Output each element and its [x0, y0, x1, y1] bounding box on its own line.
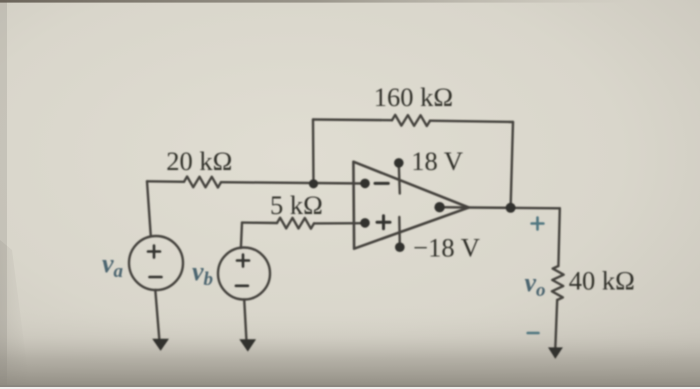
wire noninverting input right	[314, 222, 365, 225]
resistor R160 zigzag	[392, 115, 430, 126]
arrow vb ground	[239, 339, 256, 351]
svg-text:5 kΩ: 5 kΩ	[270, 190, 323, 220]
wire feedback left vertical	[312, 120, 315, 184]
op-amp -18V pin dot	[395, 242, 405, 252]
plus sign load	[532, 218, 544, 230]
minus sign load	[528, 332, 539, 335]
bottom dark rule	[0, 385, 700, 387]
op-amp inverting pin dot	[360, 179, 370, 189]
svg-text:40 kΩ: 40 kΩ	[569, 265, 635, 295]
op-amp +18V pin dot	[394, 158, 404, 168]
op-amp plus mark	[377, 216, 390, 229]
source va circle	[129, 236, 183, 290]
wire -18V supply stub	[398, 217, 401, 246]
wire vb to arrow	[244, 300, 246, 340]
resistor R40 zigzag	[552, 266, 564, 300]
minus sign va	[150, 276, 162, 279]
wire output to load corner	[469, 206, 560, 209]
node output junction dot	[506, 203, 516, 213]
resistor R5 zigzag	[277, 218, 314, 229]
wire inverting input right	[221, 182, 365, 183]
svg-text:18 V: 18 V	[411, 146, 463, 176]
resistor R20 zigzag	[184, 177, 221, 188]
svg-text:160 kΩ: 160 kΩ	[374, 82, 453, 112]
wire va to arrow	[155, 290, 159, 339]
op-amp noninverting pin dot	[360, 218, 370, 228]
wire inverting input left	[147, 180, 184, 183]
wire feedback top	[313, 118, 392, 121]
node A junction dot	[309, 179, 318, 188]
bottom shading band	[0, 305, 700, 386]
wire load vertical top	[558, 208, 559, 266]
op-amp minus mark	[375, 182, 388, 185]
wire +18V supply stub	[399, 164, 400, 194]
arrow load ground	[548, 347, 563, 359]
source vb circle	[218, 248, 270, 300]
wire load vertical bottom	[555, 300, 557, 349]
wire va drop	[147, 181, 151, 236]
op-amp U1 triangle	[353, 162, 468, 249]
wire feedback right vertical	[511, 122, 513, 208]
plus sign vb	[237, 255, 249, 267]
op-amp output pin dot	[434, 202, 444, 212]
wire output inner stub	[440, 206, 469, 209]
top dark edge strip	[0, 0, 700, 3]
wire vb drop	[241, 223, 242, 248]
minus sign vb	[236, 284, 248, 287]
svg-text:20 kΩ: 20 kΩ	[166, 146, 232, 176]
plus sign va	[148, 246, 160, 258]
wire noninverting input left	[242, 221, 277, 224]
svg-text:−18 V: −18 V	[413, 233, 480, 263]
bottom white edge	[0, 387, 700, 389]
wire feedback top right	[430, 121, 513, 122]
arrow va ground	[152, 339, 169, 351]
